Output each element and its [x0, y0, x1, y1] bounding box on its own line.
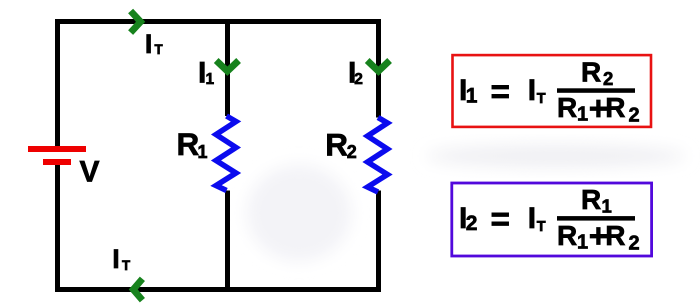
svg-text:I: I — [145, 29, 153, 59]
svg-text:R: R — [177, 126, 200, 162]
svg-text:2: 2 — [603, 68, 613, 89]
svg-text:T: T — [155, 42, 164, 57]
svg-text:T: T — [537, 91, 546, 107]
svg-text:I: I — [112, 244, 120, 274]
svg-text:1: 1 — [466, 84, 478, 107]
svg-text:1: 1 — [602, 196, 612, 217]
svg-text:R: R — [325, 127, 348, 163]
svg-text:R: R — [581, 56, 601, 87]
svg-text:T: T — [122, 258, 131, 273]
svg-text:2: 2 — [347, 142, 357, 162]
svg-text:2: 2 — [629, 105, 640, 127]
svg-text:=: = — [491, 73, 511, 110]
svg-text:R: R — [605, 92, 625, 123]
svg-text:1: 1 — [206, 71, 215, 88]
svg-text:I: I — [528, 74, 536, 107]
svg-text:1: 1 — [198, 142, 208, 162]
svg-text:1: 1 — [577, 104, 588, 126]
svg-text:R: R — [581, 184, 601, 215]
svg-text:2: 2 — [629, 233, 640, 255]
svg-text:R: R — [605, 220, 625, 251]
svg-text:=: = — [491, 201, 511, 238]
svg-text:R: R — [557, 92, 577, 123]
svg-text:2: 2 — [466, 212, 478, 235]
svg-text:V: V — [80, 156, 100, 189]
svg-text:R: R — [557, 220, 577, 251]
svg-text:1: 1 — [577, 231, 588, 253]
svg-text:T: T — [537, 219, 546, 235]
svg-text:2: 2 — [354, 71, 363, 88]
svg-text:I: I — [528, 202, 536, 235]
